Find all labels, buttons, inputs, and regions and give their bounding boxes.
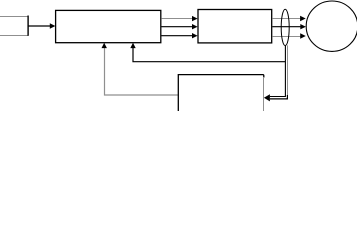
- arrowhead up into block 1 (left): [102, 43, 107, 48]
- double-line stem from ellipse: inner (black): [270, 46, 285, 97]
- wire B1: block2 to circle (gray): [272, 18, 300, 20]
- wire B2: block2 to circle: [272, 26, 300, 28]
- wire: input box to block 1: [28, 25, 50, 27]
- feedback wire: box left side to block1 bottom (gray): [105, 48, 178, 96]
- output circle (clipped at right): [306, 1, 357, 51]
- double-line stem outer corner (black): [270, 95, 287, 99]
- wire A3: block1 to block2: [161, 35, 192, 37]
- block 1 (large rectangle): [56, 10, 161, 42]
- feedback wire: stem tap to block1 bottom (black): [133, 48, 285, 62]
- feedback box right border (gray): [263, 77, 265, 111]
- input box (cut off at left edge) top border: [0, 16, 28, 18]
- wire A2: block1 to block2: [161, 26, 192, 28]
- arrowhead up into block 1 (right): [130, 43, 135, 48]
- arrowhead into block 1: [50, 23, 56, 28]
- arrowhead into feedback box right side: [264, 94, 270, 101]
- arrowhead A1: [192, 16, 198, 21]
- double-line stem from ellipse: outer vertical (gray): [287, 45, 289, 95]
- input box bottom border: [0, 35, 28, 37]
- arrowhead B3: [300, 33, 306, 38]
- input box right border: [27, 16, 29, 36]
- wire B3: block2 to circle (gray): [272, 36, 300, 38]
- wire A1: block1 to block2 (gray): [161, 18, 192, 20]
- arrowhead A2: [192, 24, 198, 29]
- bundle ellipse over wires: [281, 9, 289, 45]
- block 2 (rectangle): [198, 10, 272, 43]
- arrowhead B2: [300, 24, 306, 29]
- arrowhead B1: [300, 16, 306, 21]
- feedback box left border: [177, 74, 179, 111]
- arrowhead A3: [192, 33, 198, 38]
- feedback box (cut off at bottom) top border: [178, 75, 264, 78]
